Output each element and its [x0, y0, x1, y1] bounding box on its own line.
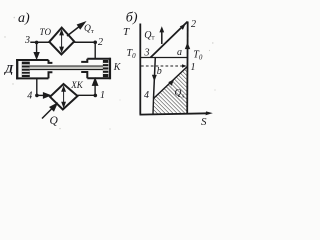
svg-text:b: b [157, 66, 162, 77]
svg-text:ТО: ТО [40, 27, 52, 37]
cold chamber XK diamond [50, 84, 78, 110]
svg-text:а: а [177, 47, 182, 58]
expander D cylinder [16, 59, 52, 79]
wire 2 horizontal [74, 41, 95, 43]
svg-text:а): а) [18, 11, 30, 26]
wire 2 vertical to K [94, 42, 96, 59]
paper speckles [4, 17, 215, 130]
svg-text:1: 1 [100, 90, 105, 101]
line 3-4 (expansion vertical) with down arrow [152, 58, 157, 99]
wire 3 vertical into D with down arrow [34, 42, 38, 58]
hatch left boundary below 4 [152, 99, 155, 115]
svg-text:2: 2 [98, 37, 103, 48]
flow arrowhead on 3-2 [180, 24, 186, 30]
Qt arrow out of TO [67, 23, 85, 37]
wire 4 to XK with arrow [37, 93, 50, 98]
line 3-2 (compression diagonal) [151, 22, 188, 58]
svg-text:б): б) [126, 11, 138, 26]
junction dot 1 [94, 94, 98, 98]
compressor K cylinder [81, 58, 111, 79]
T axis [139, 24, 141, 115]
svg-text:К: К [113, 62, 122, 73]
piston rod [30, 66, 103, 70]
svg-text:1: 1 [191, 62, 196, 73]
piston of D (striped) [22, 62, 30, 77]
isotherm T0 line through 3-a [141, 57, 187, 59]
flow arrow on 1-2 [185, 42, 190, 49]
junction dot 2 [93, 41, 97, 45]
svg-text:ХК: ХК [70, 80, 83, 90]
piston of K (striped) [103, 60, 109, 77]
svg-text:4: 4 [27, 91, 32, 102]
heat exchanger TO diamond [49, 28, 74, 55]
pipe K bottom with up arrow [93, 79, 98, 96]
S axis [140, 111, 213, 115]
svg-text:3: 3 [144, 48, 150, 59]
wire 3 horizontal [30, 41, 49, 43]
TO inner double arrow [60, 30, 63, 51]
pipe D bottom [36, 78, 38, 95]
Q arrow into XK [42, 104, 57, 119]
XK inner double arrow [62, 87, 65, 107]
svg-text:S: S [201, 116, 207, 128]
svg-text:Д: Д [4, 62, 14, 76]
svg-text:2: 2 [191, 19, 196, 30]
line 1-2 (vertical, with continuation to S axis) [186, 22, 189, 115]
svg-text:T: T [123, 26, 130, 38]
junction dot 3 [35, 41, 39, 45]
junction dot 4 [35, 94, 39, 98]
svg-text:Q: Q [50, 115, 59, 127]
line 4-1 (diagonal) with flow arrow [154, 67, 188, 99]
svg-text:3: 3 [24, 35, 30, 46]
svg-text:4: 4 [144, 90, 149, 101]
dashed line at level of 1 [141, 65, 184, 67]
wire 1 from XK [78, 94, 96, 96]
